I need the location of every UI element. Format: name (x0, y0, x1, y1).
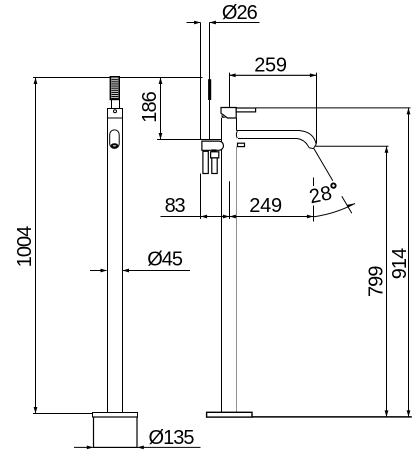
799 extension line (316, 145, 389, 147)
svg-text:Ø135: Ø135 (149, 427, 195, 449)
svg-text:249: 249 (249, 195, 282, 217)
svg-text:186: 186 (139, 91, 161, 123)
angle arc arrowhead (347, 203, 355, 207)
column right edge upper black (236, 118, 238, 131)
dimension 1004 (14, 78, 93, 414)
249 right extension lower (313, 206, 315, 222)
hand shower grip ribbed (110, 77, 119, 100)
dimension O135 (74, 427, 201, 450)
svg-text:83: 83 (165, 195, 186, 217)
hose clip thick bar (208, 79, 211, 100)
column left edge (221, 118, 223, 413)
capsule slot (110, 130, 120, 149)
holder block (202, 141, 224, 150)
dimension 799 (366, 146, 389, 417)
hand shower neck (111, 100, 113, 109)
extension line top shared y=77 (33, 77, 203, 79)
28 degree leader upper (314, 149, 333, 181)
faucet head (221, 108, 236, 119)
angle arc (314, 203, 355, 216)
dimension 83 and 249 line (161, 195, 314, 218)
lever handle (236, 108, 255, 112)
floor line (252, 416, 412, 418)
spout fillet (235, 131, 238, 138)
holder right piece dark top (211, 149, 216, 151)
column centerline extension (229, 181, 231, 219)
914 extension line (256, 107, 411, 109)
base plate left figure (93, 413, 138, 418)
dimension O45 (90, 249, 190, 273)
249 right extension upper dash (313, 178, 315, 187)
83 extension line (200, 174, 202, 220)
holder right piece cap (211, 152, 219, 158)
spout (237, 131, 317, 145)
hand shower rod side view (200, 23, 202, 140)
svg-text:Ø26: Ø26 (222, 2, 258, 24)
joint line (107, 117, 123, 119)
dimension 914 (389, 108, 411, 417)
28 degree leader lower (342, 196, 352, 213)
column right edge grey (236, 147, 238, 413)
svg-text:914: 914 (389, 248, 411, 280)
screw dot (114, 110, 117, 113)
base body left figure (94, 417, 138, 447)
head corner dark wedge (222, 115, 228, 118)
svg-text:Ø45: Ø45 (147, 249, 183, 271)
holder left piece (203, 151, 208, 173)
holder right piece body (212, 158, 217, 174)
diverter tab (238, 143, 245, 146)
svg-text:799: 799 (366, 266, 388, 298)
capsule dark outlet (112, 144, 118, 147)
base plate right figure (207, 412, 252, 417)
28 degree label (307, 181, 339, 208)
svg-text:1004: 1004 (14, 226, 36, 268)
dimension 259 (229, 54, 316, 143)
dimension O26 (187, 2, 260, 24)
handle and column body left figure (108, 109, 123, 413)
dimension 186 (139, 78, 221, 140)
svg-text:28: 28 (307, 182, 334, 208)
svg-text:259: 259 (254, 54, 287, 76)
